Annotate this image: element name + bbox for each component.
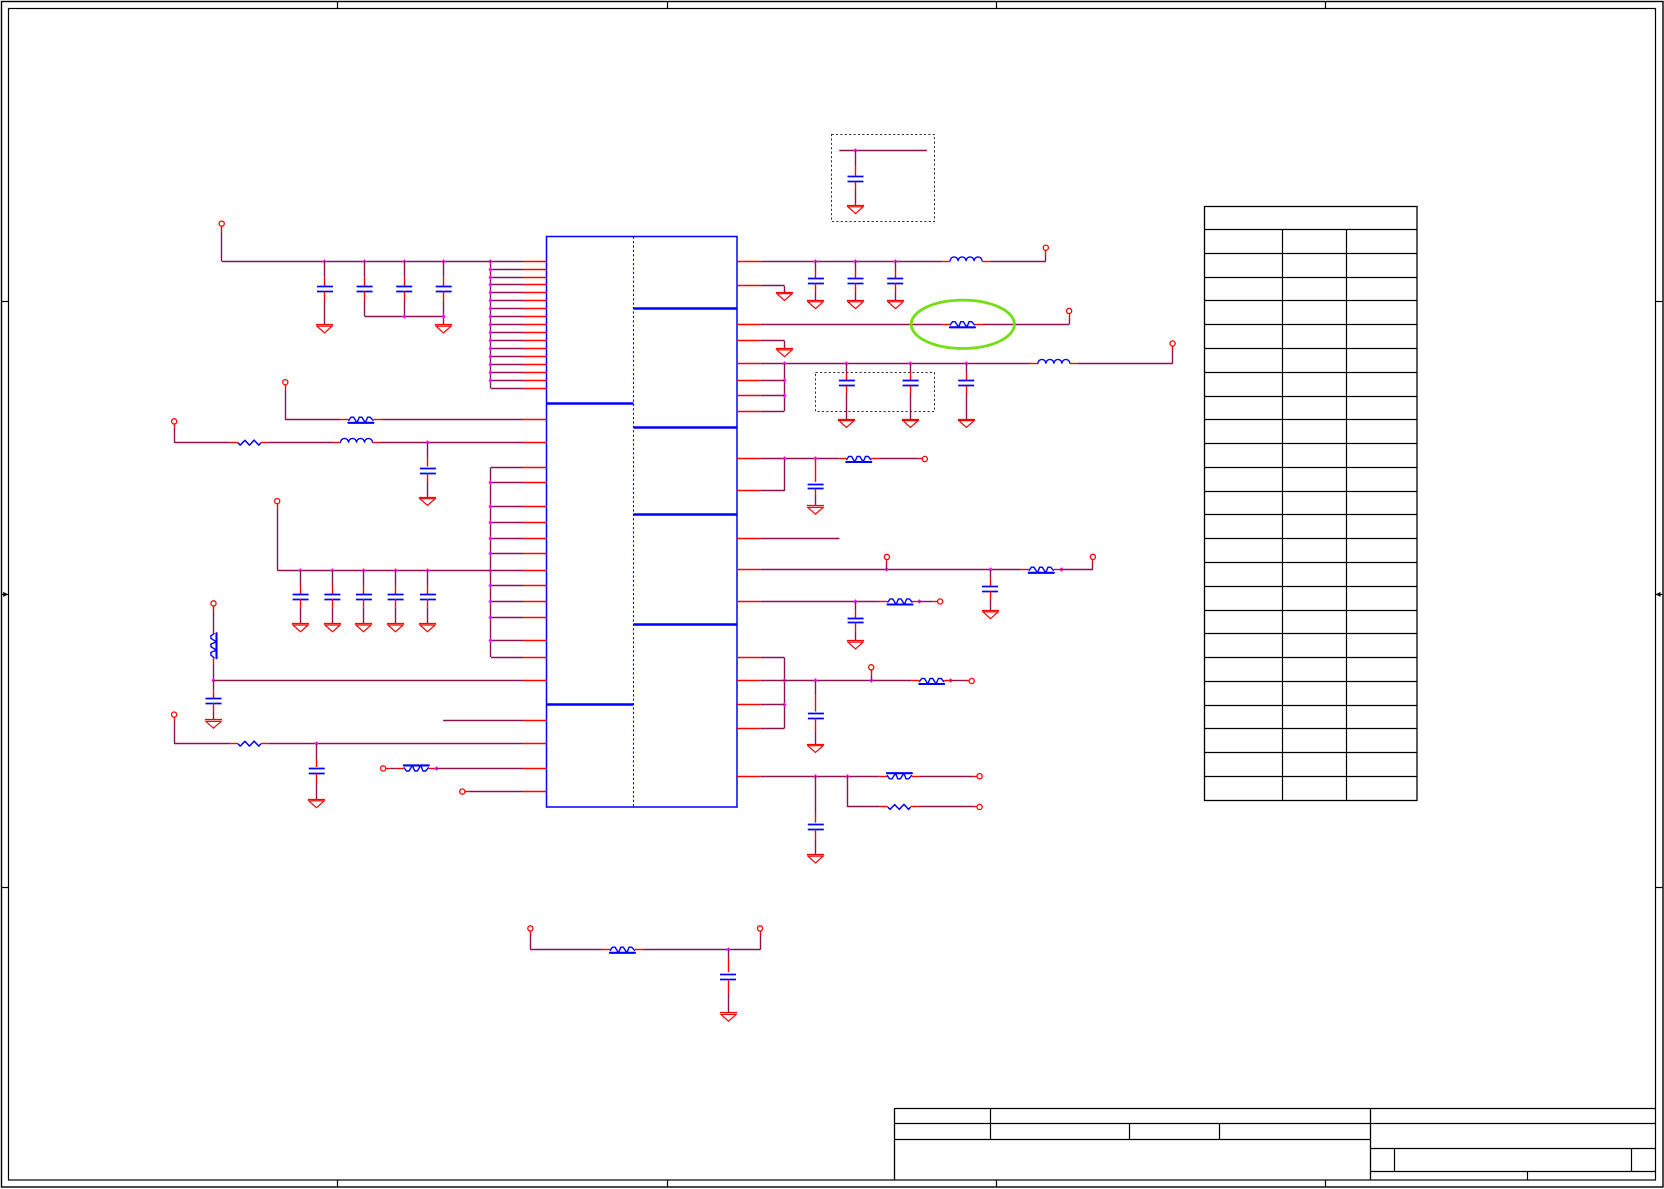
junction row776 at C24 <box>814 774 818 779</box>
IC pin row602 <box>737 601 761 603</box>
port P17 <box>933 599 943 604</box>
ground G1 <box>316 325 333 333</box>
wire net row286 <box>761 286 785 293</box>
wire net row364 a <box>761 363 1030 365</box>
IC pin L27 <box>523 617 547 619</box>
resistor R5 <box>396 765 437 771</box>
resistor R4 <box>230 741 269 746</box>
wire to IC pin L19 <box>491 482 523 484</box>
wire to IC pin L2 <box>491 269 523 271</box>
IC pin L5 <box>523 292 547 294</box>
capacitor C8 <box>356 570 372 623</box>
wire to IC pin L10 <box>491 332 523 334</box>
junction right bus2 a <box>783 678 787 683</box>
junction bundle1 pin L3 <box>489 275 493 280</box>
resistor R12 <box>879 773 920 779</box>
wire net row791 <box>469 791 523 793</box>
capacitor C12 <box>309 744 325 800</box>
wire bus left bundle 2 <box>490 467 492 657</box>
junction bundle2 pin L26 <box>489 599 493 604</box>
IC pin L16 <box>523 380 547 382</box>
junction row681R at R11 <box>949 678 953 683</box>
capacitor C24 <box>808 776 824 854</box>
wire to IC pin L14 <box>491 364 523 366</box>
wire net row776 b <box>920 776 973 778</box>
data table <box>1204 207 1417 801</box>
junction box1 <box>854 148 858 153</box>
wire net row681R a <box>761 680 912 682</box>
port P7 <box>381 766 396 771</box>
junction row364 at C18 <box>909 361 913 366</box>
port P19 <box>965 678 975 683</box>
IC pin L8 <box>523 316 547 318</box>
junction row570R at C21 <box>989 567 993 572</box>
IC pin R6 <box>737 380 761 382</box>
wire net row442 a <box>174 442 230 444</box>
junction bundle1 pin L1 <box>489 259 493 264</box>
IC pin L3 <box>523 277 547 279</box>
port P15 <box>884 554 889 569</box>
IC pin row681R <box>737 680 761 682</box>
junction bundle1 pin L13 <box>489 354 493 359</box>
junction row602 at R10 <box>918 599 922 604</box>
junction row768 <box>435 766 439 771</box>
IC U1 center dashed divider <box>633 237 635 807</box>
IC pin row743 <box>523 743 547 745</box>
junction VCC1 at C4 <box>442 259 446 264</box>
ground G5 <box>324 624 341 632</box>
ground G4 <box>292 624 309 632</box>
IC pin R8 <box>737 411 761 413</box>
junction row570L at C7 <box>331 568 335 573</box>
ground G3 <box>419 498 436 506</box>
wire bus left bundle 1 <box>490 261 492 388</box>
junction row570L at C6 <box>299 568 303 573</box>
junction right bus1 b <box>783 393 787 398</box>
junction bundle1 pin L5 <box>489 290 493 295</box>
wire to IC pin L27 <box>491 617 523 619</box>
IC pin row720 <box>523 720 547 722</box>
wire bus right pins 380-411 <box>784 364 786 412</box>
IC U1 right section divider 2 <box>634 426 738 428</box>
wire to IC pin L13 <box>491 356 523 358</box>
junction cap bus at C4 <box>442 314 446 319</box>
wire to IC pin L12 <box>491 348 523 350</box>
resistor R6 <box>602 947 643 953</box>
junction row681R at P18 <box>870 678 874 683</box>
wire net row538 <box>761 538 840 540</box>
capacitor C17 <box>839 364 855 419</box>
capacitor C6 <box>293 570 309 623</box>
capacitor C1 <box>317 261 333 325</box>
wire to IC pin R6 <box>761 380 784 382</box>
capacitor C3 <box>396 261 412 316</box>
port P10 <box>757 926 762 950</box>
IC U1 left section divider 2 <box>547 703 634 705</box>
IC pin row442 <box>523 442 547 444</box>
resistor R7 <box>942 322 983 328</box>
capacitor C13 <box>720 950 736 1013</box>
junction VCC1 at C1 <box>323 259 327 264</box>
IC pin row791 <box>523 791 547 793</box>
resistor R13 <box>880 804 919 809</box>
junction VCC2 at C14 <box>814 259 818 264</box>
junction row570R at R9 <box>1060 567 1064 572</box>
IC pin R7 <box>737 395 761 397</box>
junction VCC1 at C3 <box>403 259 407 264</box>
ground G25 <box>847 206 864 214</box>
junction row364 at C17 <box>845 361 849 366</box>
ground G8 <box>419 624 436 632</box>
wire to IC pin L7 <box>491 308 523 310</box>
ground G16 <box>776 349 793 357</box>
capacitor C4 <box>436 261 452 325</box>
ground G19 <box>958 420 975 428</box>
capacitor C22 <box>848 602 864 641</box>
wire net row570L <box>277 570 491 572</box>
IC pin L15 <box>523 372 547 374</box>
IC pin row776 <box>737 776 761 778</box>
wire loop to pin491 <box>761 459 785 491</box>
junction VCC2 at C16 <box>894 259 898 264</box>
highlight ellipse <box>911 300 1014 348</box>
wire to IC pin L20 <box>491 506 523 508</box>
wire net row681 vert <box>213 664 215 681</box>
junction row364 at bus <box>783 361 787 366</box>
port P3 <box>172 419 177 443</box>
resistor R10 <box>880 599 920 605</box>
junction row570R at P15 <box>885 567 889 572</box>
junction row570L at C9 <box>394 568 398 573</box>
wire net box1 <box>839 150 927 152</box>
wire net VCC1 row <box>222 261 491 263</box>
junction row570L at C10 <box>426 568 430 573</box>
wire to IC pin L3 <box>491 277 523 279</box>
junction bundle1 pin L12 <box>489 346 493 351</box>
junction bundle1 pin L4 <box>489 282 493 287</box>
port P11 <box>1043 245 1048 255</box>
inductor L1 <box>333 438 381 442</box>
junction bundle1 pin L16 <box>489 378 493 383</box>
IC pin row657 <box>737 657 761 659</box>
IC pin row728 <box>737 728 761 730</box>
wire net row570R b <box>1062 564 1093 570</box>
wire net row419 a <box>285 419 340 421</box>
junction bundle2 pin L19 <box>489 480 493 485</box>
wire to IC pin L18 <box>491 467 523 469</box>
port P14 <box>918 456 928 461</box>
IC pin row538 <box>737 538 761 540</box>
junction VCC2 at C15 <box>854 259 858 264</box>
IC pin L25 <box>523 585 547 587</box>
junction right bus2 b <box>783 702 787 707</box>
junction bundle2 pin L23 <box>489 551 493 556</box>
capacitor C5 <box>420 443 436 498</box>
wire net row364 b <box>1078 351 1173 364</box>
junction bundle1 pin L11 <box>489 338 493 343</box>
port P9 <box>528 926 533 950</box>
wire to IC pin L15 <box>491 372 523 374</box>
wire net row341 <box>761 341 785 349</box>
junction bundle1 pin L10 <box>489 330 493 335</box>
wire net VCC2 a <box>761 261 942 263</box>
IC pin L18 <box>523 467 547 469</box>
resistor R1 <box>340 417 381 423</box>
IC pin L29 <box>523 657 547 659</box>
wire net row459 b <box>879 458 917 460</box>
junction bundle1 pin L15 <box>489 370 493 375</box>
port P21 <box>973 804 983 809</box>
capacitor C14 <box>808 261 824 300</box>
IC pin L10 <box>523 332 547 334</box>
IC U1 left section divider 1 <box>547 402 634 404</box>
IC pin L20 <box>523 506 547 508</box>
wire cap group bus <box>365 316 444 318</box>
IC pin L4 <box>523 284 547 286</box>
junction row459 at bus <box>783 456 787 461</box>
IC U1 right section divider 3 <box>634 513 738 515</box>
wire net row807 a <box>848 776 880 807</box>
wire bus right pins 681-728 <box>784 657 786 728</box>
wire to IC pin R8 <box>761 411 784 413</box>
IC pin row341 <box>737 340 761 342</box>
IC pin L23 <box>523 553 547 555</box>
wire to IC pin L23 <box>491 553 523 555</box>
wire net row459 a <box>761 458 839 460</box>
wire net row324 b <box>983 318 1070 325</box>
capacitor C7 <box>324 570 340 623</box>
capacitor C2 <box>357 261 373 316</box>
ground G23 <box>807 745 824 753</box>
IC pin L11 <box>523 340 547 342</box>
resistor R11 <box>911 678 951 684</box>
resistor R2 <box>230 440 269 445</box>
wire net row705 <box>761 704 784 706</box>
frame centering ticks left and right <box>1 302 1663 888</box>
junction bundle1 pin L6 <box>489 298 493 303</box>
wire to IC pin L26 <box>491 601 523 603</box>
capacitor C19 <box>958 364 974 419</box>
IC pin L28 <box>523 640 547 642</box>
IC pin row570R <box>737 569 761 571</box>
ground G24 <box>807 855 824 863</box>
ground G12 <box>807 301 824 309</box>
IC U1 right section divider 1 <box>634 307 738 309</box>
ground G18 <box>902 420 919 428</box>
junction bottom <box>727 947 731 952</box>
ground G15 <box>776 293 793 301</box>
port P12 <box>1067 308 1072 318</box>
frame center arrow right <box>1655 592 1663 597</box>
wire net row768 <box>437 768 523 770</box>
wire net row807 b <box>919 806 973 808</box>
wire to IC pin L16 <box>491 380 523 382</box>
IC pin L2 <box>523 269 547 271</box>
inductor L2 <box>942 257 990 262</box>
IC pin L22 <box>523 538 547 540</box>
ground G10 <box>308 800 325 808</box>
junction VCC1 at C2 <box>363 259 367 264</box>
IC pin L6 <box>523 300 547 302</box>
junction row442 <box>426 440 430 445</box>
IC pin row491 <box>737 490 761 492</box>
capacitor C11 <box>206 681 222 720</box>
IC pin row768 <box>523 768 547 770</box>
junction cap bus at C3 <box>403 314 407 319</box>
wire to IC pin L17 <box>491 388 523 390</box>
IC pin row419 <box>523 419 547 421</box>
capacitor C16 <box>887 261 903 300</box>
wire to IC pin L29 <box>491 657 523 659</box>
port P6 <box>172 712 177 744</box>
wire to IC pin L4 <box>491 284 523 286</box>
wire net row442 b <box>269 442 333 444</box>
resistor R3 <box>211 631 217 664</box>
resistor R8 <box>838 456 879 462</box>
junction row570L at C8 <box>362 568 366 573</box>
IC pin L24 <box>523 570 547 572</box>
ground G17 <box>838 420 855 428</box>
port P16 <box>1090 554 1095 564</box>
junction row681R at C23 <box>814 678 818 683</box>
wire net row776 a <box>761 776 879 778</box>
wire to IC pin L28 <box>491 640 523 642</box>
IC pin row324 <box>737 324 761 326</box>
wire net bottom b <box>643 949 760 951</box>
inductor L3 <box>1030 359 1078 363</box>
wire to IC pin L11 <box>491 340 523 342</box>
ground G2 <box>435 325 452 333</box>
ground G9 <box>205 720 222 729</box>
junction row459 at C20 <box>814 456 818 461</box>
dashed group box 1 <box>832 135 935 222</box>
wire net row720 <box>443 720 523 722</box>
ground G7 <box>387 624 404 632</box>
ground G6 <box>355 624 372 632</box>
IC pin row286 <box>737 285 761 287</box>
ground G22 <box>847 641 864 649</box>
junction bundle1 pin L14 <box>489 362 493 367</box>
wire net row743 b <box>269 743 523 745</box>
wire to IC pin L8 <box>491 316 523 318</box>
port P18 <box>869 665 874 681</box>
wire to IC pin L22 <box>491 538 523 540</box>
junction bundle2 pin L27 <box>489 615 493 620</box>
ground G21 <box>982 611 999 619</box>
title block <box>895 1108 1656 1180</box>
IC pin L14 <box>523 364 547 366</box>
junction bundle2 pin L28 <box>489 638 493 643</box>
IC pin L9 <box>523 324 547 326</box>
wire net row602 b <box>920 601 934 603</box>
junction row681 <box>212 678 216 683</box>
wire to IC pin L24 <box>491 570 523 572</box>
wire net row681 horiz <box>214 680 524 682</box>
op IC U1 body <box>547 237 738 808</box>
IC pin row705 <box>737 704 761 706</box>
ground G13 <box>847 301 864 309</box>
wire net bottom a <box>530 949 602 951</box>
capacitor C21 <box>982 570 998 611</box>
IC pin L7 <box>523 308 547 310</box>
port P8 <box>460 789 470 794</box>
IC pin row364 <box>737 363 761 365</box>
wire to IC pin L25 <box>491 585 523 587</box>
junction bundle2 pin L25 <box>489 583 493 588</box>
wire net row681R b <box>951 680 965 682</box>
wire to IC pin L9 <box>491 324 523 326</box>
wire net row657 <box>761 657 784 659</box>
capacitor C18 <box>903 364 919 419</box>
resistor R9 <box>1021 567 1062 573</box>
junction right bus1 a <box>783 378 787 383</box>
wire net row419 b <box>381 419 523 421</box>
junction row602 at C22 <box>854 599 858 604</box>
port P4 <box>275 499 280 571</box>
ground G14 <box>887 301 904 309</box>
port P20 <box>973 774 983 779</box>
wire net row728 <box>761 728 784 730</box>
IC pin row459 <box>737 458 761 460</box>
junction bundle1 pin L8 <box>489 314 493 319</box>
wire net VCC2 b <box>990 255 1046 262</box>
capacitor C26 <box>848 150 864 205</box>
wire to IC pin L21 <box>491 522 523 524</box>
port P2 <box>283 380 288 420</box>
junction bundle1 pin L7 <box>489 306 493 311</box>
wire net row602 a <box>761 601 880 603</box>
junction bundle1 pin L9 <box>489 322 493 327</box>
capacitor C20 <box>808 459 824 506</box>
wire to IC pin L6 <box>491 300 523 302</box>
wire net row442 c <box>381 442 524 444</box>
junction bundle2 pin L21 <box>489 520 493 525</box>
IC U1 right section divider 4 <box>634 623 738 625</box>
junction row743 <box>315 741 319 746</box>
wire net row570R a <box>761 569 1021 571</box>
IC pin L12 <box>523 348 547 350</box>
junction bundle2 pin L24 <box>489 568 493 573</box>
junction bundle1 pin L2 <box>489 267 493 272</box>
frame center arrow left <box>1 592 8 597</box>
junction row776 at branch <box>846 774 850 779</box>
IC pin L21 <box>523 522 547 524</box>
IC pin row681L <box>523 680 547 682</box>
ground G11 <box>720 1013 737 1022</box>
IC pin L13 <box>523 356 547 358</box>
wire net row743 a <box>174 743 230 745</box>
ground G20 <box>807 506 824 515</box>
IC pin L19 <box>523 482 547 484</box>
capacitor C9 <box>388 570 404 623</box>
dashed group box 2 <box>816 373 935 412</box>
IC pin L26 <box>523 601 547 603</box>
wire to IC pin L5 <box>491 292 523 294</box>
IC pin L17 <box>523 388 547 390</box>
junction bundle2 pin L22 <box>489 536 493 541</box>
junction bundle2 pin L20 <box>489 504 493 509</box>
IC pin L1 <box>523 261 547 263</box>
junction row364 at C19 <box>965 361 969 366</box>
port P1 <box>219 221 224 261</box>
IC pin row261R <box>737 261 761 263</box>
frame centering ticks top and bottom <box>338 1 1326 1187</box>
wire net row324 a <box>761 324 942 326</box>
capacitor C23 <box>808 681 824 744</box>
port P5 <box>211 601 216 631</box>
capacitor C15 <box>848 261 864 300</box>
capacitor C10 <box>420 570 436 623</box>
